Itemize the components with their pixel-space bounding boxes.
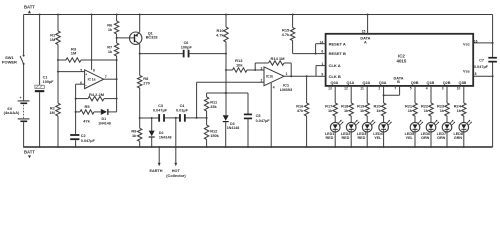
- wire IC2 pin 12 output: [344, 86, 351, 103]
- svg-text:Q1B: Q1B: [426, 81, 434, 85]
- capacitor C4 0.01uF: [176, 104, 189, 122]
- resistor R10 4.7k: [216, 27, 228, 42]
- resistor R7 1k: [107, 43, 119, 56]
- LED LED7 GRN: [437, 116, 456, 147]
- svg-text:(4xAAA): (4xAAA): [4, 110, 20, 115]
- svg-text:14: 14: [320, 41, 324, 45]
- wire IC1b output net: [284, 75, 316, 77]
- svg-text:Q3B: Q3B: [458, 81, 466, 85]
- capacitor C2 0.047uF: [70, 134, 95, 143]
- svg-text:13: 13: [328, 87, 332, 91]
- wire BATT+ top rail: [24, 14, 493, 16]
- wire IC2 pin 13 output: [328, 86, 335, 103]
- svg-text:5: 5: [80, 68, 82, 72]
- svg-text:10k: 10k: [236, 63, 243, 68]
- svg-text:0.01µF: 0.01µF: [176, 109, 189, 113]
- svg-text:1M: 1M: [49, 110, 54, 115]
- svg-text:1M: 1M: [71, 51, 77, 56]
- wire IC2 pin 14 RESET A: [316, 41, 326, 45]
- wire rail to R10: [225, 15, 227, 28]
- LED LED2 RED: [341, 116, 360, 147]
- svg-text:A: A: [364, 40, 367, 44]
- svg-text:RED: RED: [358, 136, 366, 140]
- svg-text:C3: C3: [158, 104, 163, 108]
- svg-text:IC1b: IC1b: [266, 75, 273, 79]
- resistor R19 1k: [357, 103, 369, 116]
- svg-text:RED: RED: [342, 136, 350, 140]
- svg-text:7: 7: [394, 87, 396, 91]
- resistor R21 1k: [405, 103, 417, 116]
- svg-text:4.7k: 4.7k: [282, 32, 290, 37]
- svg-text:GRN: GRN: [421, 136, 430, 140]
- wire IC2 pin 3 output: [442, 86, 447, 103]
- resistor R24 1k: [454, 103, 466, 116]
- resistor R6 1k: [107, 21, 119, 34]
- wire C6 right: [189, 53, 226, 55]
- resistor R9 1k: [131, 128, 142, 141]
- svg-text:C2: C2: [81, 134, 86, 138]
- wire R3 right to output node: [81, 59, 117, 61]
- svg-text:EARTH: EARTH: [149, 169, 162, 173]
- svg-text:0.047µF: 0.047µF: [81, 139, 96, 143]
- svg-text:3: 3: [261, 66, 263, 70]
- diode D1 1N4148: [98, 109, 111, 126]
- svg-text:0.047µF: 0.047µF: [256, 119, 271, 123]
- svg-text:RESET B: RESET B: [329, 51, 346, 56]
- svg-text:1N4148: 1N4148: [98, 121, 111, 125]
- svg-text:33k: 33k: [210, 104, 217, 109]
- capacitor C7 0.047uF: [474, 57, 497, 69]
- svg-text:C5: C5: [256, 114, 261, 118]
- wire left supply column: [23, 15, 25, 101]
- svg-text:15: 15: [362, 29, 366, 33]
- wire IC2 pin 15 DATA A to rail: [362, 15, 368, 34]
- svg-text:47k: 47k: [297, 109, 304, 113]
- wire IC2 pin 6 RESET B tie: [316, 44, 326, 54]
- resistor R16 47k: [296, 76, 309, 147]
- resistor R5 47k: [80, 104, 94, 123]
- LED LED1 RED: [325, 116, 344, 147]
- svg-text:Q2B: Q2B: [443, 81, 451, 85]
- svg-text:GRN: GRN: [437, 136, 446, 140]
- op-amp IC1a: [80, 68, 107, 88]
- wire C3-C4: [165, 117, 180, 119]
- svg-text:4015: 4015: [397, 59, 407, 64]
- svg-text:RESET A: RESET A: [329, 41, 346, 46]
- svg-text:8: 8: [475, 72, 477, 76]
- svg-text:100µF: 100µF: [43, 80, 55, 84]
- svg-text:8: 8: [93, 68, 95, 72]
- wire rail to IC1a pin 8: [92, 15, 95, 73]
- svg-text:1N4148: 1N4148: [159, 136, 172, 140]
- op-amp IC1b: [264, 67, 293, 92]
- wire right supply column: [492, 15, 494, 148]
- svg-text:POWER: POWER: [2, 59, 17, 64]
- wire N2 to R11: [206, 93, 208, 97]
- svg-text:0.047µF: 0.047µF: [474, 65, 489, 69]
- svg-text:Q0B: Q0B: [411, 81, 419, 85]
- wire C4 right net: [185, 117, 207, 119]
- svg-text:RED: RED: [326, 136, 334, 140]
- wire R1 R2 divider column: [57, 15, 59, 148]
- wire IC1a pin 6 feedback column: [75, 84, 85, 147]
- wire R5 left: [76, 111, 80, 113]
- svg-text:R14 1M: R14 1M: [270, 56, 285, 61]
- svg-text:2: 2: [378, 87, 380, 91]
- wire output node column: [116, 56, 118, 112]
- svg-text:1: 1: [286, 72, 288, 76]
- capacitor C1 100uF: [35, 15, 54, 148]
- svg-text:+: +: [19, 96, 21, 100]
- svg-text:C6: C6: [184, 41, 189, 45]
- resistor R1 1M: [50, 31, 60, 45]
- terminal HOT (Collector): [166, 118, 186, 178]
- svg-text:16: 16: [474, 39, 478, 43]
- svg-text:YEL: YEL: [406, 136, 414, 140]
- IC U2 IC2 4015 box: [326, 34, 474, 86]
- svg-text:BATT: BATT: [24, 149, 35, 154]
- transistor Q1 BC328: [130, 15, 158, 76]
- wire R4 right: [104, 98, 117, 100]
- wire R13 right to pin 3: [247, 66, 264, 71]
- svg-text:4: 4: [426, 87, 428, 91]
- svg-text:–: –: [85, 83, 87, 87]
- wire R8 to C3 node: [139, 88, 141, 128]
- svg-text:BC328: BC328: [146, 36, 158, 40]
- wire IC2 pin 11 output: [360, 86, 367, 103]
- wire IC1b pin 4 ground: [270, 83, 272, 147]
- svg-text:1M: 1M: [50, 37, 55, 42]
- resistor R3 1M: [66, 46, 81, 62]
- wire C3 net: [140, 117, 159, 119]
- svg-text:Vcc: Vcc: [463, 43, 470, 47]
- svg-text:BATT: BATT: [24, 5, 35, 10]
- svg-text:Q0A: Q0A: [330, 81, 338, 85]
- wire R5-D1: [94, 111, 101, 113]
- resistor R2 1M: [49, 103, 60, 116]
- svg-text:GRN: GRN: [454, 136, 463, 140]
- svg-text:YEL: YEL: [374, 136, 382, 140]
- svg-text:Q1A: Q1A: [346, 81, 354, 85]
- svg-text:+: +: [85, 72, 87, 76]
- wire IC2 pin 1 CLK A: [316, 62, 326, 66]
- resistor R22 1k: [421, 103, 433, 116]
- svg-text:5: 5: [410, 87, 412, 91]
- wire R6 top: [116, 15, 118, 22]
- svg-text:R4 2.2M: R4 2.2M: [89, 92, 105, 97]
- svg-text:CLK B: CLK B: [329, 74, 341, 79]
- svg-text:3: 3: [442, 87, 444, 91]
- svg-text:100pF: 100pF: [181, 46, 193, 50]
- wire R11-R12 node: [206, 111, 208, 125]
- svg-text:12: 12: [344, 87, 348, 91]
- wire C6 left: [140, 53, 184, 55]
- LED LED6 GRN: [421, 116, 440, 147]
- wire op-amp pin5 input: [58, 71, 85, 73]
- wire R15 to reset pins: [293, 41, 317, 55]
- wire IC2 pin 9 CLK B tie: [316, 66, 326, 77]
- wire IC2 pin 16 Vcc: [473, 39, 493, 44]
- node BATT top label: [24, 5, 35, 14]
- svg-text:2: 2: [261, 79, 263, 83]
- resistor R17 1k: [325, 103, 337, 116]
- svg-text:D2: D2: [159, 131, 164, 135]
- svg-text:CLK A: CLK A: [329, 63, 341, 68]
- resistor R15 4.7k: [282, 28, 295, 41]
- svg-text:(Collector): (Collector): [166, 173, 186, 178]
- svg-text:Vss: Vss: [463, 69, 470, 73]
- svg-text:1: 1: [322, 62, 324, 66]
- wire IC2 pin 10 output: [457, 86, 464, 103]
- resistor R8 270: [138, 76, 150, 89]
- svg-text:1N4148: 1N4148: [227, 126, 240, 130]
- wire rail to R15: [292, 15, 294, 28]
- svg-text:11: 11: [360, 87, 364, 91]
- resistor R23 1k: [437, 103, 449, 116]
- LED LED4 YEL: [373, 116, 392, 147]
- wire R12 bottom: [206, 140, 208, 148]
- switch SW1 POWER: [2, 55, 25, 65]
- wire R13 left: [226, 69, 233, 71]
- diode D2 1N4148: [149, 118, 172, 147]
- svg-text:Q3A: Q3A: [379, 81, 387, 85]
- wire D1 right: [109, 111, 117, 113]
- resistor R18 1k: [341, 103, 353, 116]
- LED LED5 YEL: [405, 116, 424, 147]
- svg-text:150k: 150k: [210, 133, 219, 138]
- svg-text:C1: C1: [43, 75, 48, 79]
- wire IC1b pin 2 net: [197, 79, 264, 118]
- wire R10 output filter column: [225, 42, 227, 115]
- svg-text:R5: R5: [84, 104, 90, 109]
- wire IC2 pin 4 output: [426, 86, 431, 103]
- svg-text:Q2A: Q2A: [362, 81, 370, 85]
- capacitor C6 100pF: [181, 41, 193, 57]
- wire N2 horizontal: [207, 92, 248, 94]
- resistor R12 150k: [204, 125, 219, 140]
- svg-text:C7: C7: [479, 59, 484, 63]
- diode D3 1N4148: [223, 115, 240, 147]
- svg-text:47k: 47k: [83, 118, 90, 123]
- svg-text:4.7k: 4.7k: [216, 33, 224, 38]
- resistor R13 10k: [233, 58, 248, 72]
- resistor R14 1M: [255, 56, 291, 77]
- wire IC2 pin 2 output: [378, 86, 399, 103]
- wire IC2 pin 5 output: [410, 86, 415, 103]
- capacitor C3 0.047uF: [153, 104, 168, 122]
- svg-text:R16: R16: [296, 105, 303, 109]
- svg-text:LM393: LM393: [280, 87, 293, 92]
- LED LED8 GRN: [453, 116, 472, 147]
- resistor R20 1k: [374, 103, 386, 116]
- svg-text:7: 7: [105, 75, 107, 79]
- svg-text:9: 9: [321, 73, 323, 77]
- wire IC1a output pin 7: [104, 78, 117, 80]
- terminal EARTH: [149, 147, 162, 173]
- wire R9 bottom: [139, 141, 141, 147]
- svg-text:B: B: [397, 80, 400, 84]
- LED LED3 RED: [357, 116, 376, 147]
- svg-text:4: 4: [273, 85, 275, 89]
- resistor R4 2.2M: [88, 92, 105, 101]
- wire R6-R7 node to Q1 base: [116, 34, 134, 43]
- capacitor C5 0.047uF: [244, 93, 270, 147]
- svg-text:6: 6: [321, 50, 323, 54]
- svg-text:270: 270: [143, 81, 150, 86]
- svg-text:0.047µF: 0.047µF: [153, 109, 168, 113]
- resistor R11 33k: [204, 97, 218, 111]
- wire R3 left: [58, 59, 66, 61]
- battery BT1 6V 4xAAA: [4, 96, 30, 147]
- svg-text:10: 10: [457, 87, 461, 91]
- wire IC2 pin 8 Vss: [473, 72, 493, 77]
- svg-text:IC 1a: IC 1a: [88, 77, 96, 81]
- wire BATT- bottom rail: [23, 146, 492, 148]
- wire R4 left: [76, 98, 88, 100]
- node BATT bottom label: [24, 149, 35, 158]
